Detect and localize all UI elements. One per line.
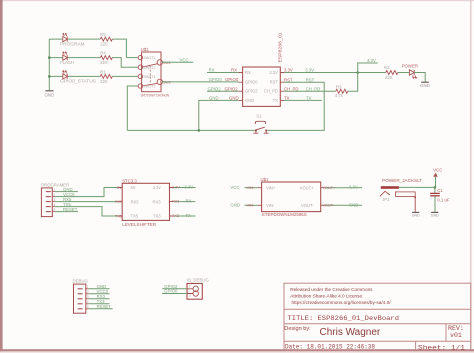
resistor R1 [100, 70, 112, 84]
svg-text:VIN-: VIN- [247, 204, 255, 208]
svg-text:TX3: TX3 [153, 214, 161, 219]
wire GPIO0 [162, 293, 187, 295]
wire RX3 stub [88, 298, 109, 300]
frame right faint border [470, 0, 471, 353]
svg-text:RESET: RESET [97, 304, 112, 309]
svg-text:REV:: REV: [448, 325, 464, 332]
wire TX stub [284, 99, 322, 101]
svg-text:220: 220 [100, 79, 108, 84]
frame left border [0, 0, 3, 353]
svg-text:SW1T2: SW1T2 [144, 66, 156, 70]
svg-text:SW2T1: SW2T1 [144, 75, 156, 79]
levelshifter STC3.3 [115, 178, 170, 227]
svg-text:R2: R2 [384, 65, 390, 70]
svg-text:R4: R4 [100, 51, 106, 56]
wire TX5 [55, 207, 118, 216]
svg-text:GND: GND [349, 203, 359, 208]
module U$1 STEPDOWNLM2596S [261, 177, 321, 217]
svg-text:CH_PD: CH_PD [306, 86, 321, 91]
svg-text:IO_DEBUG: IO_DEBUG [187, 278, 210, 283]
LED POWER [402, 64, 418, 79]
svg-text:RX5: RX5 [115, 200, 122, 204]
jack spring [380, 191, 390, 196]
svg-text:VOUT+: VOUT+ [323, 186, 337, 190]
junction dot [434, 186, 437, 189]
svg-text:Chris Wagner: Chris Wagner [320, 327, 381, 338]
wire RST [267, 82, 324, 130]
svg-text:SPDTSWITCHONON: SPDTSWITCHONON [141, 92, 170, 97]
svg-text:TX: TX [284, 96, 290, 101]
pin circles right [157, 60, 162, 65]
svg-text:Design by:: Design by: [284, 326, 311, 332]
svg-text:Date: 18.01.2015 22:46:38: Date: 18.01.2015 22:46:38 [285, 344, 375, 351]
svg-text:TX5: TX5 [115, 215, 122, 219]
resistor R5 [100, 32, 112, 46]
svg-text:JP1: JP1 [382, 197, 390, 202]
svg-text:POWER: POWER [402, 64, 418, 69]
junction dot [48, 56, 51, 59]
svg-text:GND: GND [245, 98, 254, 103]
levelshifter pin leads [118, 188, 173, 217]
wire row1 PROGRAM [49, 39, 126, 58]
wire TX3 stub [88, 303, 109, 305]
svg-text:VCC: VCC [433, 168, 442, 173]
ground GND [420, 82, 430, 88]
wire GPIO0 switch to chip [162, 81, 239, 83]
svg-text:S1: S1 [256, 114, 262, 119]
LED PROGRAM [63, 33, 68, 41]
wire VIN- [245, 204, 258, 206]
svg-text:RX: RX [245, 70, 251, 75]
svg-text:FLASH: FLASH [60, 60, 74, 65]
resistor R2 [384, 65, 398, 80]
svg-text:GPIO0_STATUS: GPIO0_STATUS [60, 79, 96, 84]
wire VOUT- [325, 204, 362, 206]
wire vertical LED common [48, 39, 50, 90]
svg-text:VIN-: VIN- [266, 203, 275, 208]
svg-text:TX: TX [306, 96, 312, 101]
wire gnd bus [127, 129, 256, 131]
svg-text:GND: GND [209, 96, 219, 101]
wire VCC down [435, 177, 437, 188]
ground GND [45, 91, 55, 98]
svg-text:VOUT-: VOUT- [323, 204, 335, 208]
svg-text:RX3: RX3 [153, 199, 162, 204]
svg-text:GPIO2: GPIO2 [245, 89, 258, 94]
svg-text:R5: R5 [100, 32, 106, 37]
svg-text:RST: RST [270, 80, 279, 85]
svg-text:3.3V: 3.3V [269, 70, 278, 75]
svg-text:5V: 5V [131, 185, 136, 190]
svg-text:GND: GND [230, 203, 240, 208]
svg-text:RX: RX [186, 198, 192, 203]
LED FLASH [63, 52, 68, 60]
svg-text:Sheet: 1/1: Sheet: 1/1 [418, 344, 465, 351]
svg-text:GPIO0: GPIO0 [225, 77, 239, 82]
svg-text:GPIO2: GPIO2 [225, 86, 239, 91]
svg-text:GPIO2: GPIO2 [208, 86, 222, 91]
svg-text:VOUT-: VOUT- [301, 203, 314, 208]
svg-text:Released under the Creative Co: Released under the Creative Commons [290, 287, 373, 292]
svg-text:C1: C1 [437, 188, 443, 193]
supply VCC arrow [433, 173, 438, 177]
svg-text:VCC: VCC [230, 185, 239, 190]
junction dot [48, 75, 51, 78]
resistor R4 [100, 51, 112, 65]
svg-text:CH_PD: CH_PD [264, 89, 278, 94]
wire VCC3 stub [88, 293, 109, 295]
wire GND to bus [199, 100, 239, 130]
svg-text:4.7k: 4.7k [335, 93, 344, 98]
connector IO_DEBUG [187, 278, 210, 300]
svg-text:3.3V: 3.3V [305, 68, 314, 73]
svg-text:LEVELSHIFTER: LEVELSHIFTER [122, 222, 156, 227]
wire VOUT+ [325, 187, 362, 189]
title block border [284, 283, 471, 350]
resistor R3 [335, 85, 348, 99]
svg-text:VIN+: VIN+ [266, 185, 276, 190]
svg-text:Attribution Share-Alike 4.0 Li: Attribution Share-Alike 4.0 License [290, 294, 362, 299]
switch U$1 SPDTSWITCHONON [138, 47, 171, 97]
capacitor C1 [434, 187, 436, 193]
svg-text:TX: TX [186, 213, 192, 218]
svg-text:220: 220 [100, 60, 108, 65]
svg-text:DEBUG: DEBUG [73, 279, 89, 284]
svg-text:GPIO0: GPIO0 [164, 289, 178, 294]
wire RX stub [207, 72, 239, 74]
svg-text:VCC: VCC [180, 58, 189, 63]
svg-text:RX3: RX3 [172, 200, 179, 204]
svg-text:RX: RX [209, 68, 215, 73]
junction dot [356, 71, 359, 74]
svg-text:SW1T1: SW1T1 [144, 56, 156, 60]
svg-text:GPIO0: GPIO0 [209, 77, 223, 82]
wire jack to junction [399, 186, 435, 188]
svg-text:220: 220 [100, 42, 108, 47]
switch levers [142, 64, 158, 67]
ground GND (jack) [412, 211, 419, 213]
wire RESET stub [88, 308, 112, 310]
wire 3.3V stub up [358, 63, 378, 73]
pushbutton S1 [253, 114, 268, 134]
wire row3 GPIO0_STATUS [49, 75, 138, 77]
svg-text:3.3V: 3.3V [172, 185, 180, 189]
wire sleeve to gnd [414, 196, 416, 211]
chip pin leads [239, 73, 285, 101]
pin circles left [138, 55, 142, 59]
wire GND stub [55, 191, 78, 193]
svg-text:220: 220 [385, 75, 393, 80]
wire 3.3V [284, 72, 386, 74]
svg-text:https://creativecommons.org/li: https://creativecommons.org/licenses/by-… [292, 300, 392, 305]
svg-text:SW2T2: SW2T2 [144, 85, 156, 89]
frame top faint border [0, 0, 474, 1]
wire row1 to switch pin1 [126, 57, 137, 59]
svg-text:R3: R3 [336, 85, 342, 90]
LED GPIO0_STATUS [63, 71, 68, 79]
svg-text:PROGRAM: PROGRAM [60, 41, 85, 46]
wire row2 FLASH [49, 58, 138, 68]
svg-text:U$1: U$1 [261, 177, 269, 182]
svg-text:RESET: RESET [63, 207, 78, 212]
svg-text:RX: RX [231, 68, 237, 73]
svg-text:3.3V: 3.3V [184, 184, 193, 189]
svg-text:VIN+: VIN+ [247, 186, 256, 190]
wire 3.3V out [174, 187, 196, 189]
svg-text:GND: GND [45, 92, 55, 97]
svg-text:RX5: RX5 [131, 199, 140, 204]
junction dot [198, 129, 201, 132]
wire R2 to LED [398, 72, 410, 74]
svg-text:3.3V: 3.3V [367, 58, 376, 63]
wire TX3 out [174, 215, 196, 217]
jack pin bar [381, 186, 399, 189]
wire GPIO2 [162, 288, 187, 290]
svg-text:STC3.3: STC3.3 [122, 178, 137, 183]
svg-text:5V: 5V [117, 186, 122, 190]
power jack JP1 POWER_JACKSLT [380, 168, 450, 218]
svg-text:RST: RST [306, 77, 315, 82]
wire switch pin4 to gnd bus [127, 86, 138, 130]
svg-text:RST: RST [284, 77, 293, 82]
jack sleeve [395, 192, 415, 197]
svg-text:GND: GND [431, 213, 439, 217]
svg-text:CH_PD: CH_PD [284, 86, 299, 91]
svg-text:3.3v: 3.3v [153, 185, 162, 190]
svg-text:TX3: TX3 [172, 214, 179, 218]
svg-text:GND: GND [412, 213, 420, 217]
wire LED to GND [414, 73, 425, 82]
wire GPIO2 stub [207, 90, 239, 92]
wire CH_PD [284, 90, 336, 92]
svg-text:3.3V: 3.3V [284, 68, 293, 73]
wire RESET stub [55, 211, 78, 213]
svg-text:0.1 uF: 0.1 uF [437, 198, 450, 203]
svg-text:TITLE: ESP8266_01_DevBoard: TITLE: ESP8266_01_DevBoard [288, 315, 400, 322]
svg-text:POWER_JACKSLT: POWER_JACKSLT [382, 178, 422, 183]
svg-text:GND: GND [420, 83, 430, 88]
svg-text:TX: TX [273, 98, 279, 103]
IC U_ESP ESP8266_01 [243, 32, 283, 107]
svg-text:SW2: SW2 [163, 81, 171, 85]
svg-text:GND: GND [229, 96, 239, 101]
svg-text:3.3V: 3.3V [349, 185, 358, 190]
stepdown pin leads [258, 188, 325, 206]
header DEBUG [73, 279, 89, 314]
svg-text:v01: v01 [450, 332, 462, 339]
svg-text:STEPDOWNLM2596S: STEPDOWNLM2596S [262, 212, 307, 217]
wire RX3 out [174, 201, 196, 203]
svg-text:2: 2 [189, 293, 191, 297]
svg-text:VOUT+: VOUT+ [300, 185, 314, 190]
wire VIN+ [245, 187, 258, 189]
wire VCC5 [55, 188, 118, 197]
svg-text:GPIO0: GPIO0 [245, 80, 258, 85]
wire R3 to 3.3V [348, 73, 358, 92]
wire RX5 [55, 201, 118, 203]
wire GND stub [88, 288, 109, 290]
header PROGRAMER [41, 183, 69, 217]
svg-text:U$1: U$1 [141, 47, 149, 52]
svg-text:ESP8266_01: ESP8266_01 [278, 32, 283, 63]
svg-text:R1: R1 [100, 70, 106, 75]
frame bottom border [0, 349, 474, 351]
svg-text:SW1: SW1 [163, 61, 171, 65]
coupler dashed [149, 66, 151, 84]
svg-text:TX5: TX5 [131, 214, 139, 219]
wire VCC from switch [162, 61, 193, 63]
ground GND (C1) [431, 211, 438, 213]
svg-text:1: 1 [189, 285, 191, 289]
